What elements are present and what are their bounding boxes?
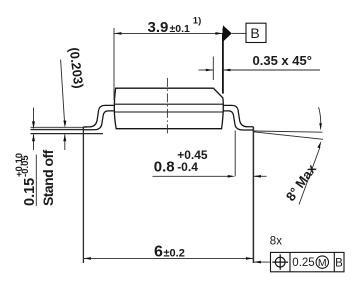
svg-text:1): 1) [193,16,201,27]
datum box B [246,23,266,42]
dimension 0.8 extension line [234,131,236,177]
seating plane line [31,133,104,135]
svg-text:-0.4: -0.4 [177,160,198,174]
left lead inner line [83,111,113,130]
text 0.15 tolerance rotated [14,153,38,206]
svg-text:0.35 x 45°: 0.35 x 45° [253,53,312,68]
dimension 3.9 extension line right (thick) [222,28,224,34]
leader (0.203) [61,60,65,122]
feature control frame box [271,252,345,271]
position symbol [272,254,288,270]
foot top extension line [31,126,88,128]
arrowhead standoff down [32,121,35,128]
left lead outer line [83,105,113,127]
dimension 6 line [83,257,253,259]
right lead outer line [223,105,254,126]
arrowhead 3.9 right [215,32,223,35]
standoff dimension line upper [33,108,35,129]
arrowhead 3.9 left [114,32,122,35]
arrowhead FCF [253,261,261,264]
svg-text:±0.2: ±0.2 [164,247,185,259]
arrowhead standoff up [32,134,35,141]
right lead inner line [223,111,254,130]
left lead tip [82,127,84,130]
8 deg arc upper [319,107,321,123]
datum leader to B box [232,32,246,34]
body parting line upper [114,103,224,105]
8 deg leader lower [299,147,320,205]
dimension 3.9 line [114,32,223,34]
dimension 6 extension line left [82,127,84,263]
arrowhead 0.35 right [223,69,231,72]
svg-text:M: M [318,257,327,269]
standoff dimension line lower [33,134,35,150]
arrowhead 8deg down [319,123,322,131]
FCF divider 2 [333,252,335,271]
svg-text:3.9: 3.9 [148,19,169,36]
svg-text:0.25: 0.25 [292,257,314,269]
svg-text:-0.05: -0.05 [20,155,31,177]
dimension 0.35 line right [223,69,320,71]
svg-text:B: B [250,25,259,41]
right lead tip [252,127,254,130]
svg-text:0.15: 0.15 [22,178,38,206]
dimension 0.35 extension line [212,57,214,81]
8 deg wedge line horizontal [253,131,322,132]
dimension 3.9 extension line left [113,28,115,100]
svg-text:B: B [335,257,343,269]
arrowhead 0.203 up [63,134,66,141]
package body outline [114,88,223,129]
svg-text:8x: 8x [270,236,282,248]
svg-text:(0.203): (0.203) [67,47,87,90]
arrowhead 6 left [83,257,91,260]
0.203 up arrow line below [64,134,66,150]
arrowhead 6 right [246,257,254,260]
FCF divider 1 [289,252,291,271]
foot bottom extension line [31,129,84,131]
dimension 0.35 line left stub [199,69,214,71]
svg-text:6: 6 [154,243,163,260]
arrowhead 0.35 left [206,69,214,72]
underline of 0.15 [35,155,37,206]
datum triangle filled [223,25,232,41]
dimension 0.8 line left [153,175,230,177]
centerline [166,78,168,134]
FCF leader [253,261,270,263]
body parting line lower [114,111,224,113]
M circle modifier [316,256,328,268]
arrowhead 0.8 left [228,175,236,178]
arrowhead 0.8 right [253,175,261,178]
svg-text:Stand off: Stand off [40,149,56,206]
svg-text:±0.1: ±0.1 [170,23,191,35]
arrowhead 8deg up [317,141,321,149]
dimension 6 extension line right [252,127,254,263]
svg-text:0.8: 0.8 [154,159,175,176]
dimension 0.8 line right stub [253,175,266,177]
8 deg wedge line sloped [253,132,323,140]
arrowhead 0.203 down [63,121,66,128]
